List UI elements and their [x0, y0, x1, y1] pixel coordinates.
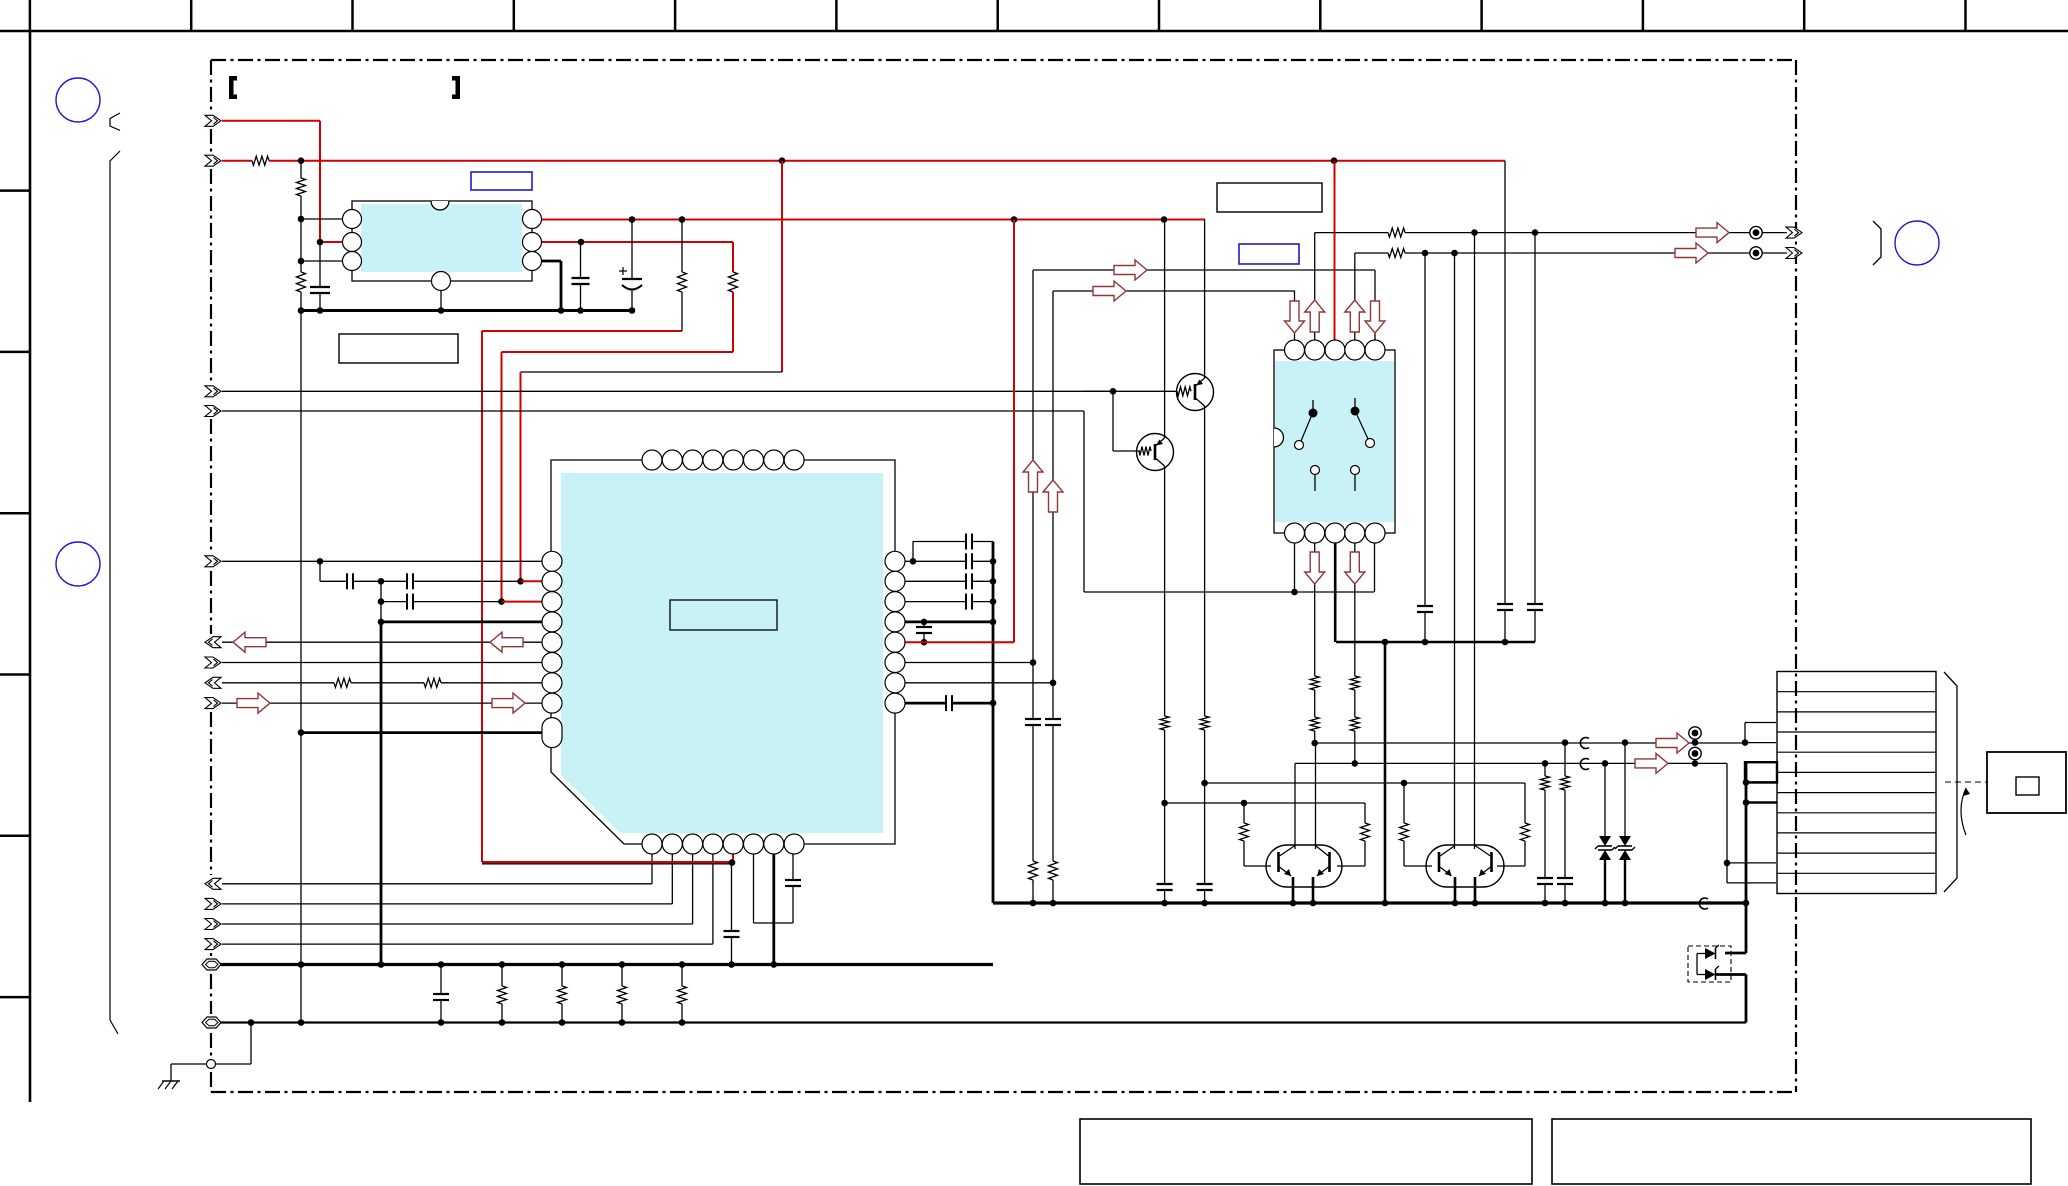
arrow U3 b4 down	[1345, 552, 1365, 584]
wire U3 t2 riser	[1314, 233, 1316, 350]
node gnd-580	[577, 307, 584, 314]
capacitor C3 plus sign	[619, 270, 627, 272]
node CN4-802	[1743, 799, 1750, 806]
motor box M1	[1987, 752, 2066, 813]
title bracket open	[229, 76, 237, 99]
wire x301 GB1-GB2	[300, 965, 302, 1023]
zener D1	[1604, 763, 1606, 836]
motor box inner	[2016, 777, 2039, 795]
page reference circle B	[56, 542, 100, 586]
node M2-1545	[1542, 760, 1549, 767]
wire x1454 to Q3	[1454, 253, 1456, 849]
wire Q2 base link	[1112, 391, 1114, 451]
wire U2 b7 thick	[772, 844, 775, 965]
U2 pin L7	[542, 673, 562, 693]
arrow L8 right inner	[492, 693, 525, 713]
node R1-913	[910, 558, 917, 565]
wire CN2-1 y391	[222, 390, 1113, 392]
wire U2 b5 red	[732, 844, 734, 862]
switch S3	[1311, 466, 1320, 475]
wire CN4 row782	[1746, 781, 1777, 783]
node GB2-301	[298, 1019, 305, 1026]
wire M1 motor phase	[1315, 742, 1745, 744]
node y242-581	[578, 239, 585, 246]
connector CN3-5 hex	[202, 959, 221, 970]
node bus903-1293	[1290, 900, 1297, 907]
U1 pin 6	[523, 252, 542, 271]
ground bus GB1 thick	[220, 963, 993, 966]
border top ruler line	[0, 30, 2068, 33]
node gnd-441	[438, 307, 445, 314]
wire U2 L6	[222, 662, 552, 664]
arrow L5 left outer	[233, 632, 266, 652]
node R4-924	[921, 619, 928, 626]
U3 pin B4	[1345, 523, 1365, 543]
IC U3 notch	[1274, 428, 1284, 447]
wire U3 b4 chain	[1354, 533, 1356, 676]
U2 pin B3	[683, 834, 703, 854]
node M1-1745	[1742, 739, 1749, 746]
wire U2 b2 to CN3-2	[671, 844, 673, 904]
U3 pin T2	[1305, 340, 1325, 360]
node GB1-773	[771, 961, 778, 968]
node y219-682	[679, 216, 686, 223]
capacitor C24	[1557, 877, 1573, 879]
node Q2coll-805	[1161, 800, 1168, 807]
arrow U3 t2 up	[1305, 300, 1325, 332]
capacitor C5	[381, 580, 407, 582]
capacitor C10 top	[912, 542, 914, 562]
wire Q3a emitter	[1292, 877, 1295, 903]
U2 pin B2	[662, 834, 682, 854]
connector CN2-6	[205, 677, 221, 688]
node y783-1404	[1401, 780, 1408, 787]
node GB1-731	[728, 961, 735, 968]
wire M1 riser to Q3	[1315, 743, 1317, 849]
arrow out2	[1675, 243, 1708, 263]
ground bus GB3 thick	[993, 901, 1746, 904]
node busR-561	[990, 558, 997, 565]
wire out1 y232 with resistor R14	[1315, 232, 1388, 234]
node gnd-632	[629, 307, 636, 314]
node Q1base-1113	[1110, 388, 1117, 395]
wire U2 b1 to CN3-1	[651, 844, 653, 884]
ferrite c mark M2	[1580, 759, 1589, 770]
node L2-521	[517, 578, 524, 585]
wire CN4 row802	[1746, 801, 1777, 803]
frame bottom edge (dash-dot)	[211, 1091, 1796, 1093]
U2 pin B6	[744, 834, 764, 854]
frame top edge (dash-dot)	[211, 59, 1796, 61]
wire x1505 chain	[1504, 161, 1506, 604]
arrow x1033 up	[1023, 460, 1043, 492]
title box 2	[1552, 1119, 2031, 1184]
node gnd-320	[317, 307, 324, 314]
U2 pin R7	[885, 673, 905, 693]
U3 pin T3	[1325, 340, 1345, 360]
connector CN2-1	[205, 386, 221, 397]
wire VCC red rail y160	[269, 160, 1505, 162]
node R6-1033	[1030, 659, 1037, 666]
U2 pin B8	[784, 834, 804, 854]
wire U2 L5	[222, 641, 552, 643]
ground tie wire	[250, 1023, 252, 1065]
U2 pin B1	[642, 834, 662, 854]
connector CN4 stub box	[1745, 762, 1777, 782]
wire VD1 anode bus	[1696, 954, 1698, 975]
resistor R7	[424, 678, 441, 687]
node VCC-x1334	[1331, 157, 1338, 164]
node GB2-441	[438, 1019, 445, 1026]
IC U3 body fill	[1275, 361, 1394, 522]
wire x1425 cap chain	[1424, 253, 1426, 606]
U2 pin R8	[885, 693, 905, 713]
U2 pin L8	[542, 693, 562, 713]
node M1-1315	[1311, 740, 1318, 747]
bracket mark near circle C	[1873, 221, 1881, 265]
capacitor C7	[731, 864, 733, 931]
U2 stadium pin	[542, 718, 562, 748]
node GB1-622	[619, 961, 626, 968]
node M1-1565	[1562, 739, 1569, 746]
node gnd-561	[558, 307, 565, 314]
diode VD1b	[1697, 974, 1705, 976]
capacitor C19	[1164, 803, 1166, 884]
switch S1	[1312, 400, 1314, 409]
node VCC-x782	[779, 157, 786, 164]
IC U1 outline	[352, 201, 532, 281]
node y219-1164	[1161, 216, 1168, 223]
resistor R21	[1561, 776, 1570, 790]
resistor R12	[1029, 861, 1038, 880]
resistor R3 on x301	[300, 261, 302, 272]
node bus903-1625	[1622, 900, 1629, 907]
capacitor C8	[792, 844, 794, 880]
U2 pin L3	[542, 592, 562, 612]
label box blue U3	[1239, 244, 1299, 264]
wire U2 L1	[222, 560, 552, 562]
wire bus x381	[380, 581, 382, 622]
connector CN2-3	[205, 556, 221, 567]
node bus903-1313	[1310, 900, 1317, 907]
resistor R5	[732, 242, 734, 272]
wire x301 mid	[300, 311, 302, 965]
diode VD1a	[1697, 953, 1705, 955]
arrow U3 b2 down	[1305, 552, 1325, 584]
wire Q2 collector chain	[1164, 466, 1166, 716]
node out1-1474	[1471, 229, 1478, 236]
wire U2 R5 red	[895, 641, 1014, 643]
wire CN4 gnd thick	[1745, 762, 1748, 903]
title bracket close	[452, 76, 460, 99]
node R4-993	[990, 619, 997, 626]
arrow M1	[1656, 733, 1689, 753]
wire U3 t1 riser	[1294, 291, 1296, 350]
node M2-1605	[1602, 760, 1609, 767]
border left ruler ticks	[0, 191, 30, 998]
U2 pin T8	[784, 450, 804, 470]
transistor Q4b	[1490, 852, 1493, 872]
connector CN3-1	[205, 878, 221, 889]
capacitor C23	[1537, 877, 1553, 879]
capacitor C13	[895, 601, 966, 603]
wire U2 b4 to CN3-4	[712, 844, 714, 944]
wire U3 t5 riser	[1374, 270, 1376, 350]
U1 pin 2	[343, 233, 362, 252]
motor bracket	[1944, 672, 1957, 892]
node L4-381	[378, 619, 385, 626]
node L3-381	[378, 598, 385, 605]
resistor ladder R9	[561, 965, 563, 987]
transistor Q3b	[1328, 852, 1331, 872]
U1 pin 8	[523, 210, 542, 229]
arrow out1	[1696, 223, 1729, 243]
wire U2 R8 thick with capacitor C15	[895, 702, 946, 705]
node out1-1535	[1532, 229, 1539, 236]
label box under U1	[339, 334, 458, 363]
wire U1 pin7 red y242	[532, 241, 733, 243]
node GB2-502	[499, 1019, 506, 1026]
IC U2 body fill	[561, 473, 883, 833]
U2 pin T5	[723, 450, 743, 470]
motor rotation dash	[1945, 781, 1988, 783]
IC U1 body fill	[361, 204, 522, 272]
wire U2 L2 red	[521, 580, 553, 582]
node out2-1425	[1422, 250, 1429, 257]
resistor ladder R10	[621, 965, 623, 987]
node bus903-1385	[1382, 900, 1389, 907]
wire U3 t3 red	[1334, 161, 1336, 350]
U2 pin R2	[885, 571, 905, 591]
U2 pin B5	[723, 834, 743, 854]
wire M2 riser to Q3	[1294, 763, 1296, 849]
motor rotation arc	[1961, 788, 1966, 835]
arrow U3 t4 up	[1345, 300, 1365, 332]
connector CN1-2	[205, 155, 221, 166]
capacitor C18	[1204, 783, 1206, 884]
capacitor C6	[381, 601, 407, 603]
resistor R17	[1364, 803, 1366, 823]
ground bus U1	[301, 309, 632, 312]
chevron mark near circle A	[110, 113, 120, 131]
ground bus GB2	[220, 1021, 1746, 1023]
wire M2 to motor rows	[1726, 763, 1728, 883]
IC U2 label box	[670, 600, 777, 630]
border top ruler ticks	[30, 0, 1966, 31]
node bus903-1033	[1030, 900, 1037, 907]
transistor Q3a	[1277, 852, 1280, 872]
wire U2 L7 with resistors	[222, 682, 334, 684]
capacitor C22	[1527, 603, 1543, 605]
arrow U3 t5 down	[1365, 301, 1385, 333]
U2 pin R1	[885, 551, 905, 571]
border left ruler line	[29, 31, 32, 1102]
node M1-1695	[1692, 739, 1699, 746]
connector CN2-4	[205, 637, 221, 648]
arrow L8 right outer	[237, 693, 270, 713]
node R7-1053	[1050, 680, 1057, 687]
node bus903-1475	[1472, 900, 1479, 907]
node GB3-1746	[1743, 900, 1750, 907]
U3 pin B3	[1325, 523, 1345, 543]
wire Q4a emitter	[1454, 877, 1457, 903]
wire red staircase B	[502, 351, 734, 353]
frame right edge (dash-dot)	[1795, 60, 1797, 1092]
node GB2-562	[559, 1019, 566, 1026]
page reference circle C	[1895, 221, 1939, 265]
wire U1 pin3 left	[301, 260, 352, 262]
wire staircase C	[781, 161, 783, 372]
wire M2 sense drop x1545	[1544, 763, 1546, 776]
resistor ladder R8	[501, 965, 503, 987]
pad P3	[1689, 727, 1701, 739]
node y642-1505	[1502, 639, 1509, 646]
node y219-1014	[1011, 216, 1018, 223]
zener D2	[1624, 743, 1626, 836]
page reference circle A	[56, 78, 100, 122]
node M2-1695b	[1692, 760, 1699, 767]
wire x1474 to Q3	[1474, 233, 1476, 849]
node bus903-1053	[1050, 900, 1057, 907]
U2 pin L1	[542, 551, 562, 571]
capacitor C17	[1045, 718, 1061, 720]
wire U3 pinb1 drop	[1294, 533, 1296, 592]
wire U2 R7	[895, 682, 1053, 684]
label box blue U1	[471, 172, 532, 190]
U3 pin B2	[1305, 523, 1325, 543]
node L1-320	[317, 558, 324, 565]
capacitor C20	[1417, 605, 1433, 607]
wire Q3 base rail y805	[1165, 802, 1365, 804]
node bus903-1545	[1542, 900, 1549, 907]
resistor R18	[1403, 783, 1405, 823]
node L2-381	[378, 578, 385, 585]
connector CN2-7	[205, 698, 221, 709]
U1 pin 3	[343, 252, 362, 271]
U2 pin T2	[662, 450, 682, 470]
U3 pin B1	[1285, 523, 1305, 543]
U1 pin 1	[343, 210, 362, 229]
capacitor C14	[923, 622, 925, 627]
wire U2 L8	[222, 702, 552, 704]
node stadium-301	[298, 729, 305, 736]
U2 pin R5	[885, 632, 905, 652]
arrow y270 right	[1114, 260, 1147, 280]
wire CN1-1 red to U1	[222, 120, 320, 122]
IC U2 outline	[551, 460, 895, 844]
switch S2	[1354, 398, 1356, 407]
capacitor C16	[1025, 718, 1041, 720]
U3 pin T1	[1285, 340, 1305, 360]
node busR-581	[990, 578, 997, 585]
U2 pin T7	[764, 450, 784, 470]
diode pack VD1 dashed box	[1688, 946, 1731, 982]
pad P4	[1689, 747, 1701, 759]
wire M2 motor phase	[1295, 762, 1727, 764]
resistor R13	[1049, 861, 1058, 880]
node Q1coll-783	[1201, 780, 1208, 787]
wire U3 b2 chain	[1314, 533, 1316, 676]
wire Q4b emitter	[1474, 877, 1477, 903]
bus y642 thick	[1336, 641, 1535, 644]
connector CN2-2	[205, 406, 221, 417]
connector CN3-4	[205, 939, 221, 950]
IC U1 notch	[431, 201, 449, 210]
U2 pin R3	[885, 592, 905, 612]
wire Q1 base	[1084, 390, 1177, 392]
node y219-632	[629, 216, 636, 223]
title box 1	[1080, 1119, 1532, 1184]
U2 pin L5	[542, 632, 562, 652]
wire U2 R4 thick	[895, 621, 993, 624]
connector CN5-2 chevron	[1786, 248, 1802, 259]
capacitor C11	[913, 560, 966, 562]
wire U2 L4 thick	[381, 621, 552, 624]
wire Q2 emitter riser	[1164, 220, 1166, 439]
wire red x1014	[1013, 220, 1015, 643]
node R5-924	[921, 639, 928, 646]
node out2-1454	[1451, 250, 1458, 257]
U2 pin B4	[703, 834, 723, 854]
node M1-1625	[1622, 739, 1629, 746]
node gnd-301	[298, 307, 305, 314]
U3 pin B5	[1365, 523, 1385, 543]
U2 pin R4	[885, 612, 905, 632]
node busR-601	[990, 598, 997, 605]
ground circle on frame	[207, 1060, 216, 1069]
U2 pin L2	[542, 571, 562, 591]
node y642-1385	[1382, 639, 1389, 646]
resistor R19	[1524, 783, 1526, 823]
connector CN5-1 chevron	[1786, 227, 1802, 238]
wire U3 t4 riser	[1354, 253, 1356, 350]
node GB1-562	[559, 961, 566, 968]
node GB1-441	[438, 961, 445, 968]
resistor R1	[252, 156, 269, 165]
arrow y291 right	[1093, 281, 1126, 301]
node bus903-1164	[1161, 900, 1168, 907]
ferrite c mark M1	[1580, 738, 1589, 749]
U2 pin T4	[703, 450, 723, 470]
transistor Q4a	[1438, 852, 1441, 872]
U2 pin L4	[542, 612, 562, 632]
node y642-1425	[1422, 639, 1429, 646]
cable brace line	[110, 151, 120, 1034]
wire U2 R1	[895, 560, 913, 562]
node CN4-782	[1743, 779, 1750, 786]
capacitor C12	[895, 580, 966, 582]
wire x301 pin1-pin3	[300, 219, 302, 261]
wire Q4 base rail y783	[1205, 782, 1525, 784]
U1 pin 4	[432, 272, 451, 291]
U2 pin B7	[764, 834, 784, 854]
label box above U3	[1217, 183, 1322, 212]
connector CN1-1	[205, 115, 221, 126]
wire x1385 thick	[1384, 642, 1387, 903]
wire U1 bottom pin	[440, 281, 442, 311]
node y592 pinb1	[1291, 589, 1298, 596]
switch S4	[1351, 466, 1360, 475]
wire x1535 chain	[1534, 233, 1536, 604]
connector CN4 motor block	[1777, 672, 1936, 894]
U2 pin T6	[744, 450, 764, 470]
wire CN1-2 with resistor R1	[222, 160, 252, 162]
node x301-261	[298, 258, 305, 265]
U2 pin T1	[642, 450, 662, 470]
resistor R16	[1243, 803, 1245, 823]
node M2-1355	[1352, 760, 1359, 767]
node GB1-301	[298, 961, 305, 968]
